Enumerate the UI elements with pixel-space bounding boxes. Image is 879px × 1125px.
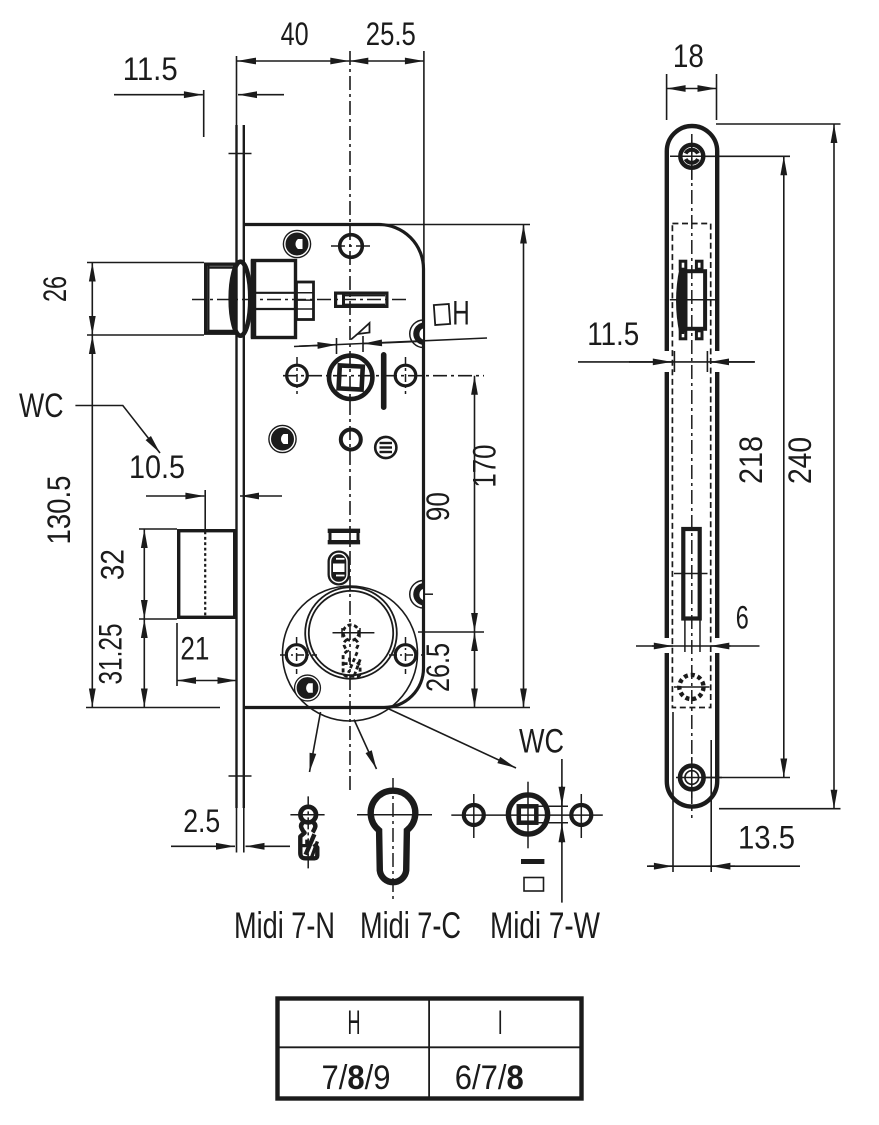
dim 40 (237, 16, 349, 61)
cylinder hole double circle (305, 587, 397, 679)
svg-text:13.5: 13.5 (738, 820, 795, 856)
cylinder side circle left (280, 637, 317, 674)
vertical centerline (349, 51, 351, 792)
latch bolt side view (670, 261, 716, 339)
svg-text:Midi 7-C: Midi 7-C (360, 905, 461, 946)
svg-text:7/8/9: 7/8/9 (322, 1059, 391, 1097)
svg-text:25.5: 25.5 (366, 16, 416, 52)
latch spindle shaft (297, 282, 314, 320)
svg-text:11.5: 11.5 (123, 51, 178, 87)
square spindle hub (329, 356, 372, 399)
spindle horizontal centerline (283, 375, 484, 377)
svg-text:170: 170 (467, 445, 503, 488)
latch bevel ellipse (231, 262, 251, 336)
top screw (670, 134, 714, 180)
dim 130.5 left (41, 335, 220, 708)
svg-text:18: 18 (673, 38, 704, 74)
extension line top edge (385, 224, 530, 226)
cylinder side circle right (389, 637, 422, 674)
square H dimension leader (294, 336, 487, 354)
dim 6 (636, 600, 760, 647)
side view centerline (691, 140, 693, 818)
Midi 7-C euro profile (357, 778, 432, 901)
cylinder keyhole dashed profile (343, 625, 360, 678)
svg-text:WC: WC (19, 387, 64, 425)
dim 11.5 top left (114, 51, 284, 137)
dim 31.25 (93, 619, 145, 708)
svg-text:I: I (498, 1004, 503, 1042)
slotted screw (375, 437, 396, 458)
dotted hole circle (674, 675, 710, 699)
leader arrows to variants (310, 709, 517, 772)
dim 170 right (467, 225, 524, 708)
bell circle (283, 586, 418, 721)
dim 25.5 (349, 16, 424, 61)
small slot rectangle above stadium rivet (328, 531, 360, 542)
rivet bottom left of cylinder (294, 674, 321, 701)
svg-text:240: 240 (782, 437, 818, 484)
square-H label (434, 295, 470, 333)
deadbolt slot side view (674, 529, 708, 652)
svg-text:130.5: 130.5 (41, 476, 77, 545)
stadium rivet (328, 551, 351, 586)
svg-text:Midi 7-W: Midi 7-W (490, 905, 600, 946)
extension lines top (237, 51, 424, 270)
svg-text:21: 21 (180, 631, 209, 667)
dim 21 (177, 623, 237, 686)
deadbolt front view (179, 531, 235, 618)
dim 10.5 (129, 449, 282, 529)
svg-text:32: 32 (95, 549, 131, 580)
spindle side circle right (395, 357, 416, 394)
dim 26 left (37, 263, 204, 336)
svg-text:WC: WC (519, 723, 564, 761)
rivet top left (283, 230, 312, 259)
C-rivet right upper (410, 320, 424, 348)
svg-text:90: 90 (420, 492, 456, 521)
dim 90 right (420, 376, 475, 632)
svg-text:40: 40 (281, 16, 309, 52)
small circle below spindle (341, 430, 361, 450)
latch body in case (253, 260, 296, 338)
dim 18 top (667, 38, 717, 120)
svg-text:H: H (348, 1004, 361, 1042)
bottom screw (676, 757, 722, 798)
svg-text:26.5: 26.5 (420, 643, 456, 692)
dim 2.5 bottom (171, 803, 290, 853)
svg-text:6/7/8: 6/7/8 (455, 1059, 524, 1097)
Midi 7-W WC set (451, 723, 603, 903)
dim 13.5 (647, 712, 800, 872)
faceplate front view (two vertical lines) (229, 125, 252, 808)
extension line bottom edge (384, 707, 530, 709)
lock case body outline (244, 225, 424, 708)
latch bolt head (206, 264, 236, 333)
latch tail slot (336, 292, 387, 309)
WC label left with leader (19, 387, 160, 453)
cylinder crosshair (333, 628, 375, 638)
rivet middle left (268, 425, 297, 454)
TABLE (278, 999, 582, 1099)
svg-text:218: 218 (733, 436, 769, 484)
Midi 7-N keyhole (290, 796, 324, 868)
vertical slot bar (381, 352, 387, 410)
svg-text:H: H (452, 295, 470, 333)
top hole circle (331, 235, 371, 258)
faceplate side view outline (667, 126, 717, 807)
svg-text:6: 6 (736, 600, 749, 636)
svg-text:10.5: 10.5 (129, 449, 185, 485)
latch centerline (192, 299, 409, 301)
svg-text:11.5: 11.5 (587, 316, 639, 352)
dim 240 (716, 124, 841, 809)
svg-text:31.25: 31.25 (93, 624, 129, 685)
dim 32 (95, 529, 177, 619)
dim 218 (705, 156, 790, 777)
dim 26.5 right (420, 632, 475, 708)
C-rivet right lower (410, 581, 433, 609)
svg-text:Midi 7-N: Midi 7-N (234, 905, 335, 946)
svg-text:2.5: 2.5 (183, 803, 220, 839)
dim 11.5 right view (578, 316, 755, 372)
dashed hidden case rect (672, 224, 710, 708)
svg-text:26: 26 (37, 276, 73, 302)
cylinder center extension line (418, 631, 484, 633)
spindle side circle left (287, 357, 308, 394)
edge breaks at dimension crossings (660, 351, 724, 653)
flag mark (351, 323, 370, 340)
